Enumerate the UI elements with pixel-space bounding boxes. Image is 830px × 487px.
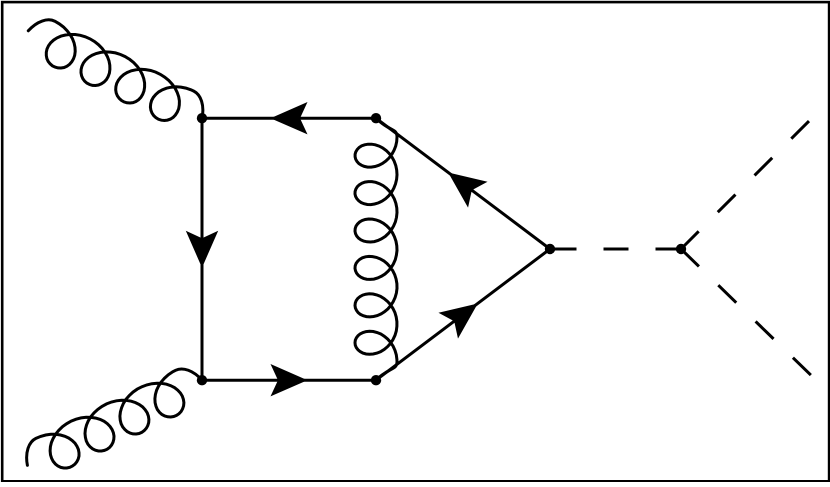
higgs outgoing top-right dashed	[681, 118, 812, 249]
higgs outgoing bottom-right dashed	[681, 249, 813, 377]
wire quark line upper diagonal	[376, 118, 550, 249]
arrow bottom (right)	[271, 364, 308, 396]
gluon exchange in loop	[355, 118, 397, 380]
node V3	[197, 375, 207, 385]
arrow top (left)	[271, 102, 308, 134]
wire quark line left	[201, 118, 204, 380]
node V1	[197, 113, 207, 123]
arrow left (down)	[186, 231, 218, 268]
gluon g1 incoming top-left	[28, 20, 203, 121]
arrow upper diagonal	[448, 172, 487, 207]
wire quark line top	[202, 117, 376, 120]
wire quark line lower diagonal	[376, 249, 550, 380]
gluon g2 incoming bottom-left	[27, 369, 202, 468]
node V2	[371, 113, 381, 123]
wire quark line bottom	[202, 379, 376, 382]
node V5	[545, 244, 555, 254]
node V6	[676, 244, 686, 254]
higgs propagator dashed	[552, 248, 682, 251]
node V4	[371, 375, 381, 385]
arrow lower diagonal	[438, 303, 477, 338]
